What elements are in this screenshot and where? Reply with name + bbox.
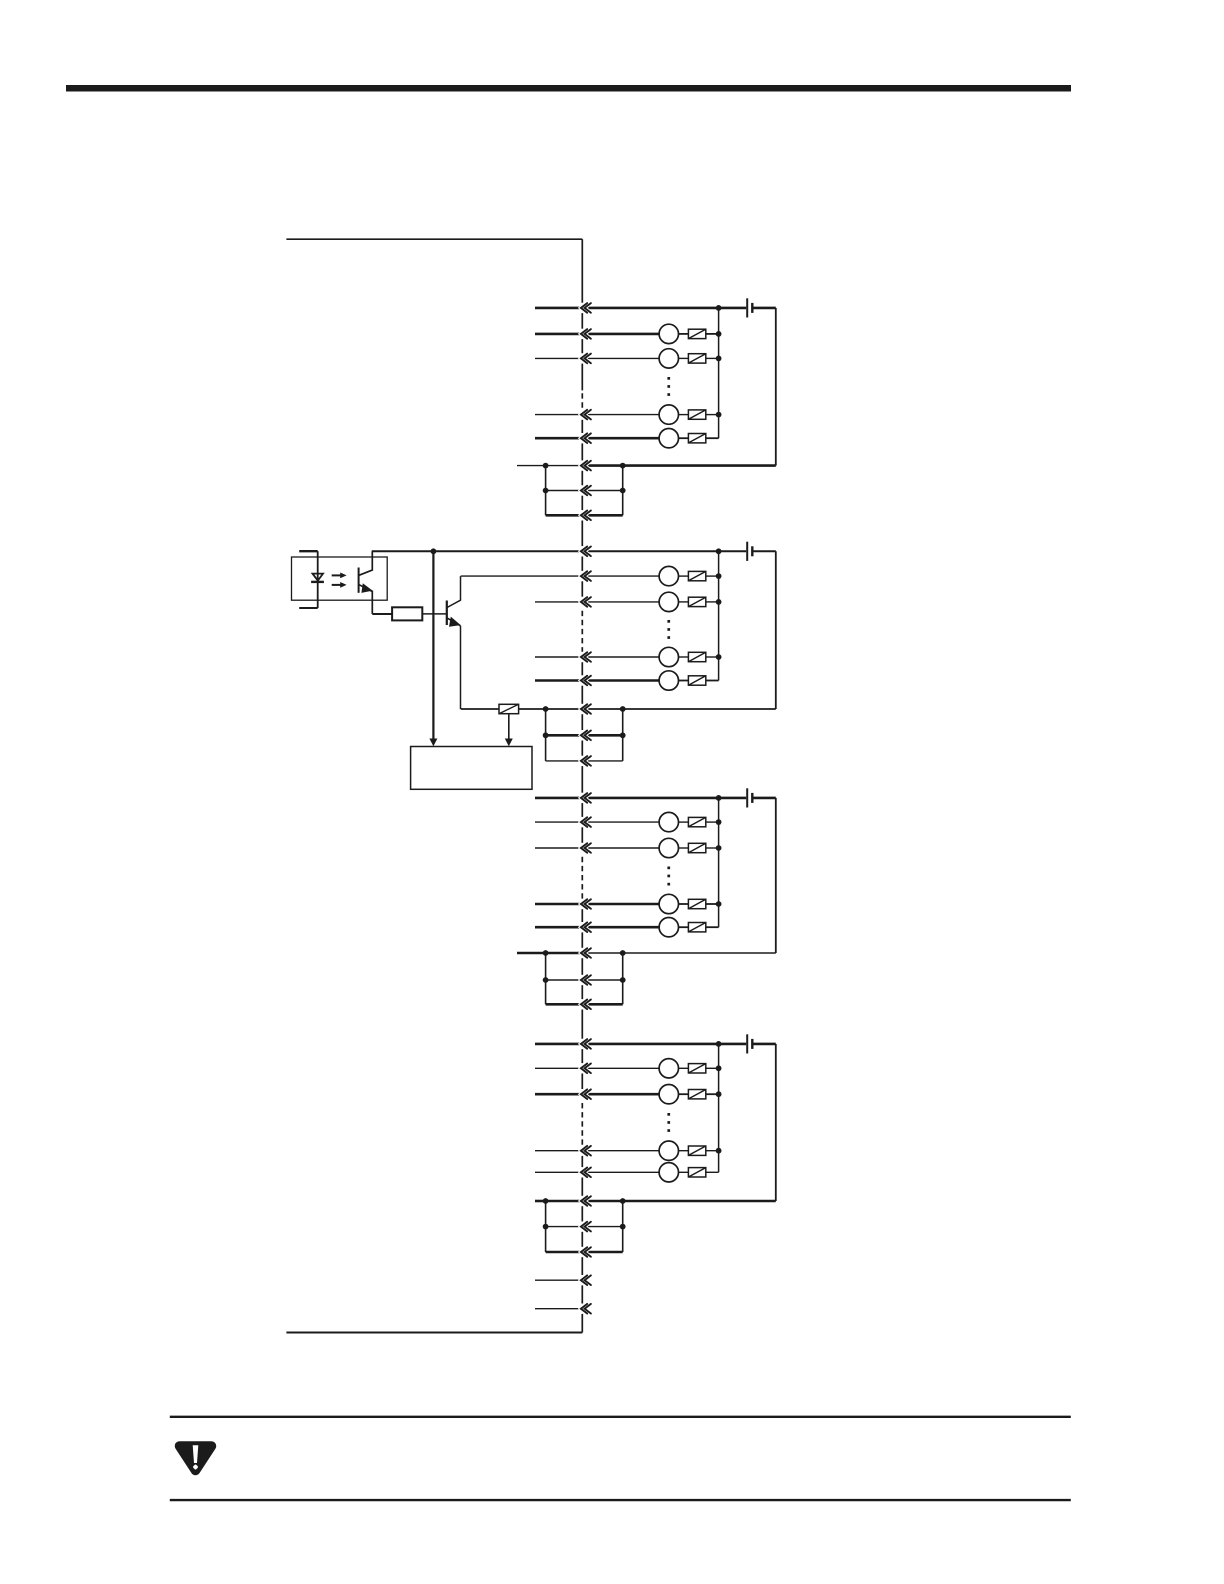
wire: internal supply drop with arrow into internal circuit [429,551,437,746]
node: junction block3 row 3 [716,845,722,851]
optocoupler LED cathode lead [299,607,318,609]
wire: block3 output row 4 (left segment) [535,903,659,906]
node: junction block4 row 4 [716,1148,722,1154]
connector pin chevron spare row 1 [581,1275,591,1285]
wire: COM tie vertical right block1 [622,466,624,516]
node: junction block2 row 4 [716,654,722,660]
header rule (page top bar) [66,85,1071,92]
wire: return line right side block2 [775,551,777,709]
wire: transistor emitter down to COM row [460,626,462,709]
wire: fuse to supply rail row 5 [706,926,719,928]
fuse F3-3 [688,899,705,908]
connector pin chevron block4 row 7 [581,1222,591,1232]
caution warning icon [180,1445,212,1470]
node: COM junction left block4 [543,1198,549,1204]
wire: block2 supply line (left of battery) [372,550,746,552]
fuse F2-1 [688,571,705,580]
ellipsis: repeated outputs block4 [667,1113,670,1132]
optocoupler light arrows [332,573,347,588]
connector pin chevron block2 row 3 [581,597,591,607]
connector pin chevron block1 row 4 [581,410,591,420]
optocoupler LED D1 [311,551,324,608]
wire: block4 output row 5 (left segment) [535,1171,659,1173]
connector pin chevron spare row 2 [581,1304,591,1314]
bus: vertical I/O connector line [581,239,583,1332]
wire: COM stub block1 [517,465,546,467]
node: junction block2 row 2 [716,573,722,579]
node: junction block1 row 4 [716,412,722,418]
wire: load to fuse row 3 [679,847,689,849]
fuse F4-4 [688,1168,705,1177]
node: COM2 junction left block3 [543,977,549,983]
connector pin chevron block4 row 1 [581,1039,591,1049]
wire: COM row block1 (right of bus) [582,464,776,467]
wire: COM stub block3 [517,952,546,955]
wire: block1 supply line (left of battery) [535,307,746,310]
connector pin chevron block2 row 6 [581,704,591,714]
wire: load to fuse row 5 [679,680,689,682]
connector pin chevron block3 row 1 [581,793,591,803]
connector pin chevron block1 row 6 [581,461,591,471]
connector pin chevron block4 row 3 [581,1089,591,1099]
wire: COM row 2 block1 [546,490,623,492]
fuse F3-1 [688,817,705,826]
node: COM2 junction right block4 [620,1224,626,1230]
connector pin chevron block1 row 8 [581,511,591,521]
wire: block3 output row 2 (left segment) [535,821,659,823]
wire: supply rail vertical block3 [718,798,720,927]
node: junction block4 row 3 [716,1091,722,1097]
wire: load to fuse row 2 [679,575,689,577]
fuse F2-2 [688,597,705,606]
wire: block1 output row 5 (left segment) [535,437,659,440]
node: junction block4 row 2 [716,1065,722,1071]
connector pin chevron block3 row 8 [581,1000,591,1010]
caution rule top [170,1416,1071,1418]
wire: COM row 2 block2 [546,734,623,737]
node: COM junction right block1 [620,463,626,469]
wire: block2 output row 2 (left segment) [461,575,659,577]
battery PS3 (external supply) [747,788,752,807]
wire: fuse to supply rail row 2 [706,1067,719,1069]
optocoupler LED anode lead [299,550,318,552]
load L2-4 [659,671,678,690]
load L1-2 [659,349,678,368]
node: COM junction right block2 [620,706,626,712]
wire: fuse to supply rail row 4 [706,656,719,658]
wire: fuse to supply rail row 4 [706,903,719,905]
wire: fuse to supply rail row 5 [706,437,719,439]
wire: load to fuse row 4 [679,903,689,905]
wire: resistor to transistor base [422,613,447,615]
wire: COM row 2 block4 [546,1226,623,1228]
wire: COM row 3 block4 [546,1251,623,1254]
wire: top feed line from PLC [286,238,582,240]
wire: COM row 3 block1 [546,514,623,517]
connector pin chevron block2 row 4 [581,652,591,662]
transistor Q2 (output transistor) [447,576,461,627]
connector pin chevron block1 row 3 [581,354,591,364]
wire: COM row block4 (left of bus) [546,1200,583,1203]
wire: block4 output row 4 (left segment) [535,1150,659,1152]
load L4-2 [659,1085,678,1104]
wire: fuse to COM terminal [519,708,546,710]
node: COM2 junction right block3 [620,977,626,983]
connector pin chevron block3 row 5 [581,922,591,932]
wire: COM tie vertical right block4 [622,1201,624,1252]
fuse F1-3 [688,410,705,419]
connector pin chevron block3 row 7 [581,975,591,985]
fuse F4-3 [688,1146,705,1155]
node: COM2 junction left block4 [543,1224,549,1230]
wire: COM row block1 (left of bus) [546,465,583,467]
load L2-1 [659,566,678,585]
wire: COM row 3 block3 [546,1003,623,1006]
wire: block2 output row 4 (left segment) [535,656,659,658]
optocoupler phototransistor Q1 [359,551,373,614]
node: junction block1 row 2 [716,331,722,337]
wire: COM stub block4 [535,1200,546,1203]
wire: fuse to supply rail row 3 [706,357,719,359]
wire: supply rail vertical block1 [718,308,720,438]
wire: block4 output row 2 (left segment) [535,1067,659,1069]
wire: spare row 1 [535,1279,582,1281]
wire: load to fuse row 3 [679,357,689,359]
wire: fuse to supply rail row 4 [706,414,719,416]
connector pin chevron block2 row 2 [581,571,591,581]
node: junction block3 row 4 [716,901,722,907]
wire: block1 output row 4 (left segment) [535,414,659,416]
wire: COM tie vertical right block2 [622,709,624,761]
node: junction block3 row 2 [716,819,722,825]
wire: block4 supply line (left of battery) [535,1043,746,1046]
load L3-1 [659,812,678,831]
wire: supply rail vertical block4 [718,1044,720,1172]
wire: block3 output row 5 (left segment) [535,926,659,929]
wire: load to fuse row 4 [679,656,689,658]
connector pin chevron block4 row 8 [581,1247,591,1257]
connector pin chevron block2 row 7 [581,731,591,741]
connector pin chevron block1 row 7 [581,486,591,496]
load L1-3 [659,405,678,424]
fuse F1-4 [688,434,705,443]
wire: load to fuse row 2 [679,1067,689,1069]
wire: COM row block4 (right of bus) [582,1200,776,1203]
wire: fuse to supply rail row 3 [706,847,719,849]
wire: load to fuse row 4 [679,414,689,416]
wire: return line right side block3 [775,798,777,953]
wire: fuse to supply rail row 4 [706,1150,719,1152]
wire: block3 supply line (right of battery) [754,797,776,800]
wire: load to fuse row 4 [679,1150,689,1152]
wire: return line right side block1 [775,308,777,466]
connector pin chevron block4 row 4 [581,1146,591,1156]
wire: block2 output row 5 (left segment) [535,679,659,682]
node: COM junction right block3 [620,950,626,956]
fuse F1-2 [688,354,705,363]
load L2-3 [659,647,678,666]
node: junction block1 row 3 [716,356,722,362]
load L1-1 [659,324,678,343]
wire: COM row block3 (left of bus) [546,952,583,955]
wire: fuse to supply rail row 5 [706,1171,719,1173]
load L1-4 [659,429,678,448]
node: junction block2 supply rail [716,548,722,554]
load L3-4 [659,918,678,937]
connector pin chevron block2 row 1 [581,547,591,557]
wire: block1 output row 3 (left segment) [535,357,659,359]
connector pin chevron block2 row 8 [581,756,591,766]
wire: load to fuse row 3 [679,1093,689,1095]
wire: load to fuse row 2 [679,333,689,335]
fuse F3-4 [688,923,705,932]
fuse F4-1 [688,1064,705,1073]
connector pin chevron block3 row 2 [581,817,591,827]
ellipsis: repeated outputs block3 [667,867,670,886]
connector pin chevron block3 row 6 [581,948,591,958]
wire: phototransistor emitter to resistor [372,613,392,615]
caution rule bottom [170,1499,1071,1501]
wire: fuse to supply rail row 5 [706,680,719,682]
node: junction block1 supply rail [716,305,722,311]
wire: fuse to supply rail row 3 [706,1093,719,1095]
connector pin chevron block2 row 5 [581,676,591,686]
wire: block3 supply line (left of battery) [535,797,746,800]
wire: block2 supply line (right of battery) [754,550,776,552]
wire: COM row block2 (right of bus) [582,708,776,710]
wire: COM tie vertical right block3 [622,953,624,1004]
fuse F1-1 [688,329,705,338]
wire: COM row 2 block3 [546,979,623,981]
wire: load to fuse row 3 [679,601,689,603]
ellipsis: repeated outputs block1 [667,377,670,396]
wire: COM row block2 (left of bus) [546,708,583,710]
wire: block1 output row 2 (left segment) [535,333,659,336]
wire: load to fuse row 5 [679,437,689,439]
battery PS1 (external supply) [747,298,752,317]
wire: fuse to supply rail row 2 [706,821,719,823]
wire: load to fuse row 5 [679,926,689,928]
node: COM2 junction right block2 [620,732,626,738]
resistor R1 (base resistor) [392,607,422,620]
wire: COM tie vertical left block3 [545,953,547,1004]
node: COM junction right block4 [620,1198,626,1204]
wire: block4 output row 3 (left segment) [535,1093,659,1096]
wire: load to fuse row 5 [679,1171,689,1173]
load L4-3 [659,1141,678,1160]
wire: block3 output row 3 (left segment) [535,847,659,849]
internal circuit box U1 [411,747,532,790]
wire: return line right side block4 [775,1044,777,1201]
wire: fuse to supply rail row 3 [706,601,719,603]
connector pin chevron block1 row 1 [581,303,591,313]
fuse F3-2 [688,843,705,852]
load L4-1 [659,1059,678,1078]
wire: fuse to supply rail row 2 [706,333,719,335]
node: COM junction left block1 [543,463,549,469]
wire: fuse sense drop with arrow into internal circuit [505,714,513,747]
connector pin chevron block4 row 6 [581,1196,591,1206]
wire: block4 supply line (right of battery) [754,1043,776,1046]
wire: COM row block3 (right of bus) [582,952,776,954]
fuse F2-4 [688,676,705,685]
wire: supply rail vertical block2 [718,551,720,680]
connector pin chevron block1 row 5 [581,433,591,443]
fuse F2-COM [499,704,519,713]
connector pin chevron block3 row 3 [581,843,591,853]
wire: bottom feed line to PLC [286,1332,582,1334]
optocoupler PC1 package outline [292,557,388,600]
node: junction block2 row 3 [716,599,722,605]
connector pin chevron block4 row 5 [581,1168,591,1178]
wire: fuse to supply rail row 2 [706,575,719,577]
wire: block2 output row 3 (left segment) [535,601,659,603]
connector pin chevron block4 row 2 [581,1064,591,1074]
load L2-2 [659,592,678,611]
ellipsis: repeated outputs block2 [667,620,670,639]
wire: COM tie vertical left block4 [545,1201,547,1252]
load L3-2 [659,838,678,857]
wire: block1 supply line (right of battery) [754,307,776,310]
fuse F2-3 [688,652,705,661]
node: COM2 junction left block2 [543,732,549,738]
node: COM junction left block3 [543,950,549,956]
load L4-4 [659,1163,678,1182]
node: COM2 junction right block1 [620,488,626,494]
wire: spare row 2 [535,1308,582,1310]
connector pin chevron block1 row 2 [581,329,591,339]
node: COM junction left block2 [543,706,549,712]
wire: transistor emitter to fuse F2-COM [461,708,499,710]
battery PS2 (external supply) [747,542,752,561]
battery PS4 (external supply) [747,1034,752,1053]
node: COM2 junction left block1 [543,488,549,494]
wire: COM tie vertical left block2 [545,709,547,761]
fuse F4-2 [688,1090,705,1099]
node: junction block3 supply rail [716,795,722,801]
wire: COM row 3 block2 [546,760,623,762]
load L3-3 [659,894,678,913]
node: junction at internal supply line [431,548,437,554]
connector pin chevron block3 row 4 [581,899,591,909]
wire: COM tie vertical left block1 [545,466,547,516]
wire: load to fuse row 2 [679,821,689,823]
node: junction block4 supply rail [716,1041,722,1047]
